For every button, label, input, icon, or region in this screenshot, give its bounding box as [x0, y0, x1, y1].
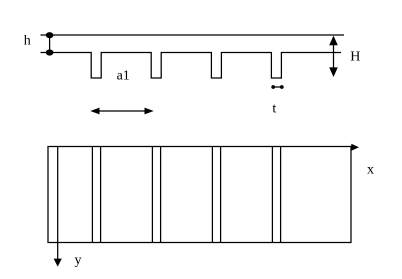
slot pair 1 — [91, 147, 93, 243]
svg-text:h: h — [24, 34, 31, 49]
oval arrowhead h bottom — [46, 49, 54, 55]
svg-text:x: x — [367, 163, 374, 178]
H arrow bottom head — [329, 67, 338, 77]
slot pair 2 — [151, 147, 153, 243]
period arrow left head — [90, 108, 99, 115]
t dim dot left — [271, 85, 275, 89]
period arrow right head — [145, 108, 154, 115]
t dim dot right — [280, 85, 284, 89]
y axis arrowhead — [54, 259, 62, 267]
x axis arrowhead — [351, 144, 359, 151]
svg-text:y: y — [75, 253, 82, 268]
svg-text:H: H — [350, 50, 360, 65]
slot pair 3 — [211, 147, 213, 243]
slot pair 4 — [271, 147, 273, 243]
dimension line t — [273, 86, 282, 88]
period double arrow line — [96, 110, 148, 112]
inner vertical line 1 — [57, 147, 59, 243]
y axis line — [57, 243, 59, 260]
dimension line H — [333, 37, 335, 75]
svg-text:t: t — [272, 102, 276, 117]
bottom rectangle (top view) — [48, 147, 351, 243]
dimension line h — [49, 35, 51, 53]
H arrow top head — [329, 36, 338, 46]
top cover line — [41, 34, 345, 36]
corrugated profile line with 4 slots — [41, 53, 342, 79]
x axis line extension — [351, 146, 353, 148]
svg-text:a1: a1 — [117, 68, 130, 83]
oval arrowhead h top — [46, 32, 54, 38]
